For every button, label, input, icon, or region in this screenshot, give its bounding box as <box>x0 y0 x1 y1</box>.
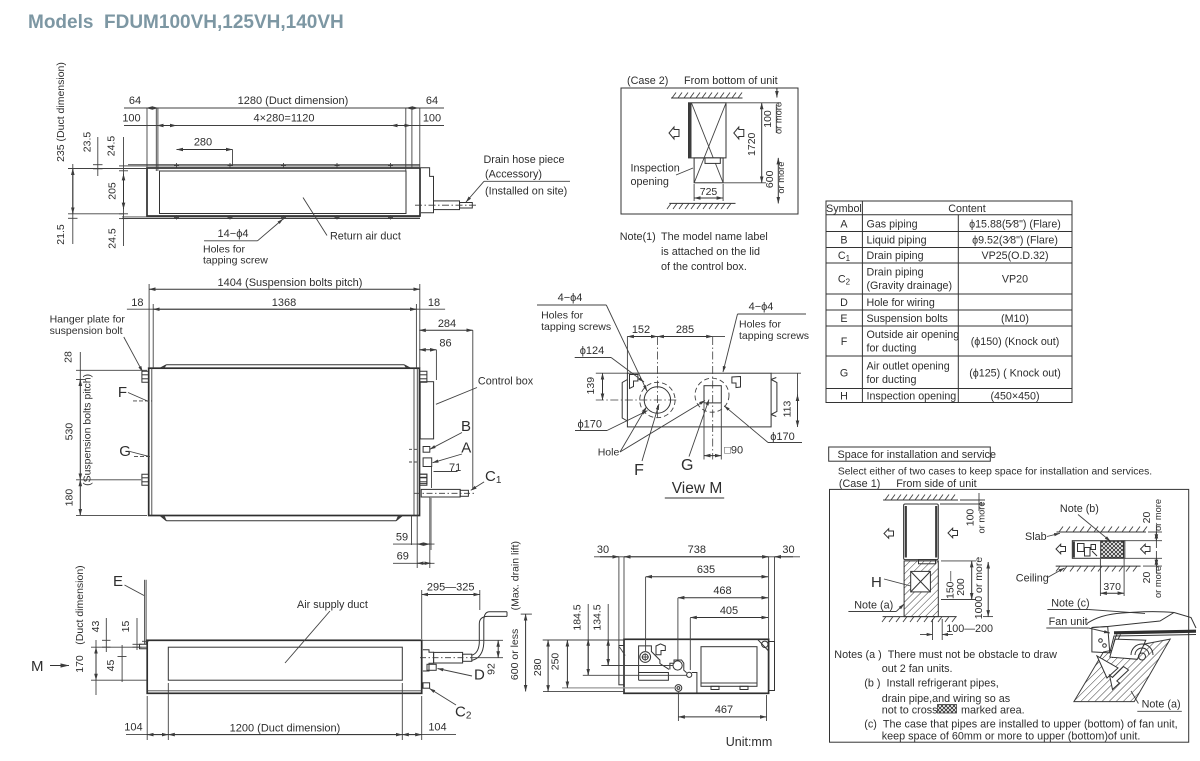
dim 295-325 <box>421 590 423 639</box>
dims 30 738 30 <box>618 557 620 645</box>
svg-text:Air supply duct: Air supply duct <box>297 599 368 611</box>
svg-text:280: 280 <box>532 658 544 676</box>
svg-text:or more: or more <box>1153 499 1163 531</box>
3D fan scroll <box>1131 644 1153 655</box>
section title box <box>829 447 991 461</box>
svg-text:D: D <box>840 297 848 309</box>
svg-text:ϕ170: ϕ170 <box>770 431 795 443</box>
dim 284 <box>419 329 473 331</box>
dim square90 <box>703 404 705 460</box>
case1: unit <box>904 504 939 560</box>
svg-text:139: 139 <box>585 377 597 395</box>
dim 69 <box>393 562 435 564</box>
svg-text:□90: □90 <box>724 445 743 457</box>
svg-text:Inspection opening: Inspection opening <box>867 391 957 403</box>
left flange strip <box>619 646 624 685</box>
dim 92 <box>422 639 503 641</box>
svg-text:370: 370 <box>1103 581 1121 593</box>
svg-text:for ducting: for ducting <box>867 343 917 355</box>
B stub <box>423 447 430 453</box>
svg-text:A: A <box>840 219 848 231</box>
svg-text:Drain piping: Drain piping <box>867 267 924 279</box>
dim 100-200 <box>932 619 934 640</box>
dim 280 <box>177 149 233 151</box>
svg-text:280: 280 <box>194 137 212 149</box>
side view (right elevation with piping) <box>532 544 800 749</box>
top view: return air duct side elevation <box>55 62 570 266</box>
right open arrow <box>734 127 744 139</box>
centerlines <box>596 399 677 401</box>
svg-text:170: 170 <box>74 655 86 673</box>
dim 20 or more bottom <box>1125 557 1162 559</box>
lower right hanger bracket <box>420 474 427 484</box>
D stub and label <box>427 664 436 670</box>
dim 468 <box>677 598 679 660</box>
hanger plate bottom-left <box>142 474 149 485</box>
svg-text:View M: View M <box>672 480 723 497</box>
svg-text:H: H <box>840 391 848 403</box>
svg-text:(Max. drain lift): (Max. drain lift) <box>510 541 522 610</box>
svg-text:The model name label: The model name label <box>661 231 768 243</box>
dim 100 or more <box>776 88 778 98</box>
case2 outer box <box>621 88 798 214</box>
case 2 figure: from bottom of unit <box>621 75 798 214</box>
svg-text:keep space of 60mm or more to: keep space of 60mm or more to upper (bot… <box>882 731 1141 743</box>
verticals below unit <box>411 516 413 546</box>
svg-text:M: M <box>31 658 44 675</box>
svg-text:1280 (Duct dimension): 1280 (Duct dimension) <box>238 95 349 107</box>
svg-text:(ϕ150) (Knock out): (ϕ150) (Knock out) <box>971 336 1060 348</box>
dim 43 <box>105 618 107 652</box>
svg-text:Holes for: Holes for <box>541 310 584 322</box>
svg-text:Holes for: Holes for <box>739 319 782 331</box>
dim line 64 / 1280 / 64 <box>124 107 444 109</box>
svg-text:(Gravity drainage): (Gravity drainage) <box>867 280 953 292</box>
svg-text:100: 100 <box>122 113 140 125</box>
svg-text:4−ϕ4: 4−ϕ4 <box>749 301 774 313</box>
air supply duct opening <box>168 647 402 680</box>
svg-text:15: 15 <box>120 621 132 633</box>
case1: ceiling hatch <box>883 499 958 501</box>
dim 134.5 <box>607 604 609 666</box>
svg-text:VP25(O.D.32): VP25(O.D.32) <box>981 250 1048 262</box>
dim 18 1368 18 <box>152 304 154 368</box>
big enclosure box <box>830 489 1189 742</box>
svg-text:Slab: Slab <box>1025 531 1047 543</box>
svg-text:Models FDUM100VH,125VH,140VH: Models FDUM100VH,125VH,140VH <box>28 12 344 33</box>
extension verticals left of duct <box>155 108 157 171</box>
svg-text:B: B <box>461 418 471 435</box>
svg-text:250: 250 <box>550 653 562 671</box>
right end bracket <box>771 380 777 415</box>
svg-text:suspension bolt: suspension bolt <box>50 325 123 337</box>
svg-text:Content: Content <box>948 203 985 215</box>
hanger plate top-right <box>420 371 427 382</box>
svg-text:14−ϕ4: 14−ϕ4 <box>218 228 249 240</box>
left dim 180 <box>79 480 81 516</box>
dim 250 <box>566 640 568 688</box>
svg-text:Hole for wiring: Hole for wiring <box>867 297 935 309</box>
svg-text:(450×450): (450×450) <box>990 391 1039 403</box>
svg-text:235 (Duct dimension): 235 (Duct dimension) <box>55 62 67 162</box>
svg-text:Unit:mm: Unit:mm <box>726 735 773 749</box>
unit body <box>147 640 422 693</box>
horizontal unit <box>1072 541 1125 559</box>
svg-text:86: 86 <box>439 338 451 350</box>
plan view of unit (top view) <box>50 277 534 568</box>
svg-text:(Suspension bolts pitch): (Suspension bolts pitch) <box>82 374 94 486</box>
right panel <box>769 642 775 691</box>
dim 600 or more <box>777 158 779 204</box>
svg-text:Air outlet opening: Air outlet opening <box>867 361 950 373</box>
svg-text:(Installed on site): (Installed on site) <box>485 186 567 198</box>
left dim 28 <box>79 352 81 383</box>
top right corner detail <box>758 639 769 651</box>
3D white arrows <box>1097 656 1118 678</box>
svg-text:4×280=1120: 4×280=1120 <box>254 113 315 125</box>
svg-text:295—325: 295—325 <box>427 582 475 594</box>
3D fan unit box <box>1087 612 1196 628</box>
screws <box>640 652 651 663</box>
hanger bracket mark top-right <box>732 377 741 388</box>
symbol/content table <box>826 201 1072 403</box>
svg-text:G: G <box>681 457 693 474</box>
svg-text:21.5: 21.5 <box>55 224 67 245</box>
wall hatch top <box>671 97 743 99</box>
dim 725 <box>693 184 695 201</box>
svg-text:(Case 2): (Case 2) <box>627 75 668 87</box>
svg-text:F: F <box>841 336 848 348</box>
hanger bracket mark top-left <box>630 375 638 389</box>
drain assembly right <box>423 650 434 671</box>
svg-text:(c) The case that pipes are i: (c) The case that pipes are installed to… <box>864 719 1177 731</box>
case1 arrows <box>884 529 894 539</box>
svg-text:of the control box.: of the control box. <box>661 261 747 273</box>
svg-text:30: 30 <box>782 544 794 556</box>
svg-text:Fan unit: Fan unit <box>1049 616 1088 628</box>
svg-text:Ceiling: Ceiling <box>1016 573 1049 585</box>
svg-text:4−ϕ4: 4−ϕ4 <box>558 292 583 304</box>
svg-text:100: 100 <box>423 113 441 125</box>
note 1 text <box>620 231 768 273</box>
svg-text:1200 (Duct dimension): 1200 (Duct dimension) <box>230 723 341 735</box>
svg-text:H: H <box>871 574 882 591</box>
svg-text:Hanger plate for: Hanger plate for <box>50 314 126 326</box>
svg-text:Note (c): Note (c) <box>1051 598 1089 610</box>
svg-text:100—200: 100—200 <box>946 623 993 635</box>
svg-text:ϕ15.88(5∕8") (Flare): ϕ15.88(5∕8") (Flare) <box>969 219 1061 231</box>
svg-text:(ϕ125) ( Knock out): (ϕ125) ( Knock out) <box>969 368 1061 380</box>
svg-text:405: 405 <box>720 605 738 617</box>
svg-text:1368: 1368 <box>272 297 296 309</box>
svg-text:From side of unit: From side of unit <box>896 478 976 490</box>
svg-text:24.5: 24.5 <box>107 228 119 249</box>
dim 467 <box>677 692 679 721</box>
svg-text:is attached on the lid: is attached on the lid <box>661 246 760 258</box>
svg-text:20: 20 <box>1141 512 1153 524</box>
suspension bolt E <box>144 580 146 645</box>
svg-text:or more: or more <box>776 162 786 194</box>
svg-text:Note (a): Note (a) <box>1142 699 1181 711</box>
svg-text:467: 467 <box>715 704 733 716</box>
svg-text:69: 69 <box>397 551 409 563</box>
svg-text:600 or less: 600 or less <box>509 629 521 680</box>
svg-text:tapping screws: tapping screws <box>739 330 809 342</box>
svg-text:530: 530 <box>64 423 76 441</box>
slab hatch <box>1057 531 1146 533</box>
svg-text:71: 71 <box>449 462 461 474</box>
svg-text:(M10): (M10) <box>1001 313 1029 325</box>
dim 86 <box>419 349 436 351</box>
svg-text:Symbol: Symbol <box>826 203 862 215</box>
bottom dims 104 1200 104 <box>146 696 148 740</box>
svg-text:205: 205 <box>107 182 119 200</box>
svg-text:284: 284 <box>438 318 456 330</box>
svg-text:104: 104 <box>124 722 142 734</box>
svg-text:ϕ9.52(3∕8") (Flare): ϕ9.52(3∕8") (Flare) <box>972 235 1058 247</box>
drain hose piece stub <box>434 201 460 210</box>
dim 1720 <box>726 102 781 104</box>
svg-text:Inspection: Inspection <box>631 163 680 175</box>
svg-text:or more: or more <box>1153 566 1163 598</box>
svg-text:24.5: 24.5 <box>106 136 118 157</box>
svg-text:for ducting: for ducting <box>867 374 917 386</box>
dim 150-200 <box>941 560 976 562</box>
hanger plate top-left <box>142 371 149 382</box>
space for installation and service section <box>829 447 1196 743</box>
dim 20 or more top <box>1125 540 1162 542</box>
floor hatch bottom <box>669 202 735 204</box>
view M body <box>627 373 771 427</box>
svg-text:ϕ124: ϕ124 <box>580 345 605 357</box>
svg-text:200: 200 <box>955 578 967 596</box>
svg-text:D: D <box>474 667 485 684</box>
svg-text:468: 468 <box>713 585 731 597</box>
svg-text:18: 18 <box>131 297 143 309</box>
unit outline <box>149 368 420 515</box>
dim 100 or more (case1) <box>960 499 985 501</box>
svg-text:E: E <box>113 573 123 590</box>
svg-text:100: 100 <box>762 110 774 128</box>
svg-text:or more: or more <box>977 501 987 533</box>
svg-text:64: 64 <box>129 95 141 107</box>
dim 635 <box>645 577 647 651</box>
3D figure: hatched slope <box>1074 639 1170 702</box>
svg-text:285: 285 <box>676 324 694 336</box>
svg-text:180: 180 <box>64 489 76 507</box>
svg-text:Control box: Control box <box>478 376 534 388</box>
dim 45 <box>121 645 123 682</box>
unit body <box>147 168 420 216</box>
svg-text:Note (a): Note (a) <box>854 600 893 612</box>
A stub <box>423 458 432 467</box>
svg-text:(b ) Install refrigerant pipe: (b ) Install refrigerant pipes, <box>864 678 998 690</box>
svg-text:(Accessory): (Accessory) <box>485 169 542 181</box>
floor hatch <box>883 616 957 618</box>
dim 59 <box>393 543 435 545</box>
svg-text:Drain piping: Drain piping <box>867 250 924 262</box>
svg-text:64: 64 <box>426 95 438 107</box>
svg-text:104: 104 <box>428 722 446 734</box>
svg-text:opening: opening <box>631 176 669 188</box>
C2 stub and label <box>423 683 430 688</box>
svg-text:tapping screw: tapping screw <box>203 255 268 267</box>
svg-text:Select either of two cases to: Select either of two cases to keep space… <box>838 467 1152 478</box>
view M (bottom face of unit) <box>537 292 809 498</box>
dim 370 <box>1099 559 1101 596</box>
svg-text:Note(1): Note(1) <box>620 231 656 243</box>
bottom duct flange bevel <box>167 520 397 522</box>
svg-text:E: E <box>840 313 847 325</box>
svg-text:600: 600 <box>764 170 776 188</box>
left end bracket <box>622 380 627 422</box>
dim 1404 suspension bolts pitch <box>148 284 150 368</box>
svg-text:(Case 1): (Case 1) <box>839 478 880 490</box>
svg-text:1000 or more: 1000 or more <box>973 557 985 620</box>
ceiling hatch <box>1056 565 1141 567</box>
svg-text:725: 725 <box>700 186 718 198</box>
svg-text:Drain hose piece: Drain hose piece <box>484 154 565 166</box>
drain bracket right <box>421 168 434 213</box>
svg-text:A: A <box>461 440 471 457</box>
svg-text:1404 (Suspension bolts pitch): 1404 (Suspension bolts pitch) <box>218 277 363 289</box>
C1 drain pipe <box>421 489 460 497</box>
svg-text:marked area.: marked area. <box>961 705 1025 717</box>
svg-text:Notes (a ) There must not be: Notes (a ) There must not be obstacle to… <box>834 649 1057 661</box>
wall column hatched <box>904 561 938 617</box>
svg-text:1720: 1720 <box>746 132 758 156</box>
dim 152 / 285 <box>626 337 628 374</box>
svg-text:152: 152 <box>632 324 650 336</box>
dim 184.5 <box>587 604 589 675</box>
top duct flange bevel <box>167 364 405 366</box>
dim 405 <box>689 618 691 670</box>
svg-text:F: F <box>634 462 644 479</box>
G square (90) with phi170 dashed circle <box>704 386 721 403</box>
svg-text:Return air duct: Return air duct <box>330 231 401 243</box>
svg-text:100: 100 <box>965 509 977 527</box>
svg-text:Note (b): Note (b) <box>1060 503 1099 515</box>
body <box>624 639 769 693</box>
svg-text:G: G <box>119 443 131 460</box>
right fig arrows <box>1056 544 1066 554</box>
svg-text:tapping screws: tapping screws <box>541 321 611 333</box>
svg-text:drain pipe,and wiring so as: drain pipe,and wiring so as <box>882 693 1011 705</box>
svg-text:28: 28 <box>63 351 75 363</box>
svg-text:(Duct dimension): (Duct dimension) <box>74 565 86 644</box>
drain hose curve (double line) <box>472 616 508 655</box>
dim 15 <box>136 618 138 650</box>
return air duct opening <box>160 171 407 214</box>
svg-text:From bottom of unit: From bottom of unit <box>684 75 778 87</box>
dim 1000 or more <box>983 616 993 618</box>
hanger plate bottom-right <box>420 474 427 485</box>
svg-text:Gas piping: Gas piping <box>867 219 918 231</box>
gray drain level line <box>562 687 676 689</box>
svg-text:ϕ170: ϕ170 <box>578 419 603 431</box>
svg-text:59: 59 <box>396 532 408 544</box>
control box <box>420 382 433 439</box>
tapping screw tick marks <box>174 163 393 220</box>
svg-text:out 2 fan units.: out 2 fan units. <box>882 663 953 675</box>
dim 113 <box>771 372 801 374</box>
svg-text:738: 738 <box>688 544 706 556</box>
unit seen from bottom with X <box>689 103 727 158</box>
svg-text:43: 43 <box>90 621 102 633</box>
lid flange lines bottom <box>122 216 420 218</box>
left open arrow <box>669 127 679 139</box>
svg-text:VP20: VP20 <box>1002 274 1028 286</box>
left dim 530 suspension bolts pitch <box>79 380 81 480</box>
svg-text:184.5: 184.5 <box>572 604 584 630</box>
dim 139 <box>596 372 627 374</box>
bracket shapes <box>656 644 665 655</box>
dim line 100 / 4x280=1120 / 100 <box>124 125 444 127</box>
svg-text:Liquid piping: Liquid piping <box>867 235 927 247</box>
inner pan <box>701 647 757 687</box>
svg-text:92: 92 <box>486 663 498 675</box>
svg-text:or more: or more <box>774 102 784 134</box>
front view: air supply duct elevation <box>31 541 532 740</box>
svg-text:30: 30 <box>597 544 609 556</box>
svg-text:Suspension bolts: Suspension bolts <box>867 313 948 325</box>
3D white panel <box>1110 639 1146 659</box>
svg-text:B: B <box>840 235 847 247</box>
svg-text:23.5: 23.5 <box>82 132 94 153</box>
dim 280 <box>543 639 624 641</box>
svg-text:20: 20 <box>1141 572 1153 584</box>
F circle (phi124 hole) <box>644 387 670 413</box>
svg-text:Hole: Hole <box>598 447 620 459</box>
3D pipe bend and screws <box>1099 639 1103 643</box>
left flange tab <box>140 644 148 648</box>
svg-text:G: G <box>840 368 848 380</box>
svg-text:113: 113 <box>782 400 794 417</box>
svg-text:Space for installation and ser: Space for installation and service <box>838 449 996 461</box>
svg-text:134.5: 134.5 <box>592 604 604 630</box>
svg-text:45: 45 <box>105 660 117 672</box>
svg-text:18: 18 <box>428 297 440 309</box>
lid flange lines top <box>128 164 420 166</box>
svg-text:635: 635 <box>697 564 715 576</box>
svg-text:not to cross: not to cross <box>882 705 938 717</box>
svg-text:F: F <box>118 384 127 401</box>
svg-text:Outside air opening: Outside air opening <box>867 329 960 341</box>
